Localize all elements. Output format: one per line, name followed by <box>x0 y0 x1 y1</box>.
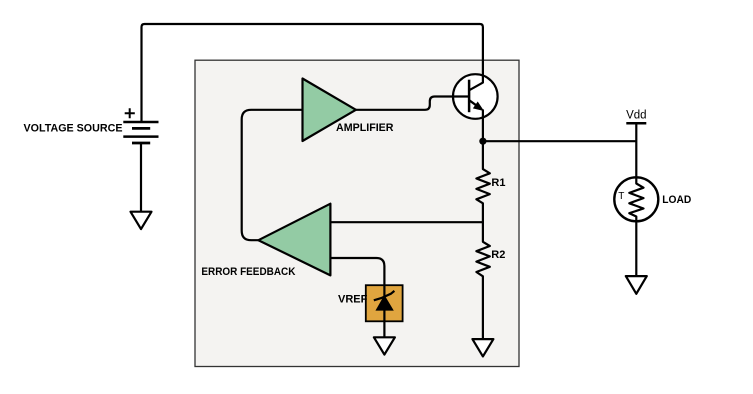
svg-text:AMPLIFIER: AMPLIFIER <box>336 122 394 134</box>
svg-text:VOLTAGE SOURCE: VOLTAGE SOURCE <box>24 123 123 135</box>
svg-text:ERROR FEEDBACK: ERROR FEEDBACK <box>201 266 295 278</box>
svg-text:T: T <box>618 191 624 202</box>
svg-text:LOAD: LOAD <box>662 194 691 206</box>
svg-text:R1: R1 <box>491 177 505 189</box>
svg-text:Vdd: Vdd <box>626 109 646 121</box>
svg-text:VREF: VREF <box>338 294 368 306</box>
svg-text:R2: R2 <box>491 249 505 261</box>
